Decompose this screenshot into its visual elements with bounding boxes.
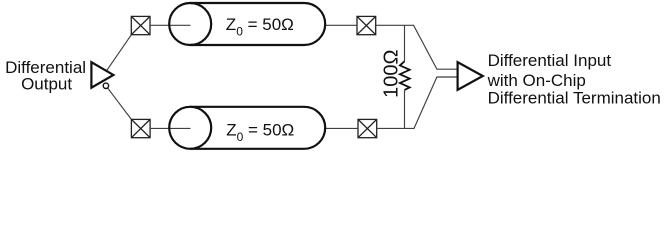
wire: bottom line to BR pad	[325, 127, 358, 129]
op-amp driver triangle	[91, 62, 113, 87]
svg-text:Output: Output	[21, 75, 72, 94]
pad TR (crossed box)	[357, 16, 376, 34]
pad BL (crossed box)	[131, 119, 150, 137]
wire: BL pad to bottom line	[150, 127, 190, 129]
op-amp receiver triangle	[458, 62, 483, 90]
svg-text:Differential Termination: Differential Termination	[488, 89, 661, 108]
resistor R termination 100 ohm	[400, 25, 410, 128]
wire: top line to TR pad	[325, 24, 357, 26]
transmission line top (coax)	[169, 3, 325, 45]
svg-text:Differential Input: Differential Input	[488, 51, 612, 70]
transmission line bottom (coax)	[169, 107, 325, 149]
wire: driver inverting output diagonal	[106, 86, 131, 120]
pad TL (crossed box)	[131, 16, 150, 34]
inversion bubble	[103, 83, 108, 88]
svg-text:100Ω: 100Ω	[380, 49, 402, 97]
wire: TR pad to top corner, diagonal down to receiver	[376, 25, 459, 69]
pad BR (crossed box)	[358, 119, 377, 137]
wire: driver noninverting output diagonal	[107, 35, 132, 71]
wire: TL pad to top line	[150, 24, 191, 26]
label: Differential Output	[5, 58, 86, 94]
svg-text:with On-Chip: with On-Chip	[487, 71, 586, 90]
label: Differential Input with On-Chip Differential Termination	[487, 51, 661, 108]
wire: BR pad to bottom corner, diagonal up to receiver	[377, 77, 459, 128]
